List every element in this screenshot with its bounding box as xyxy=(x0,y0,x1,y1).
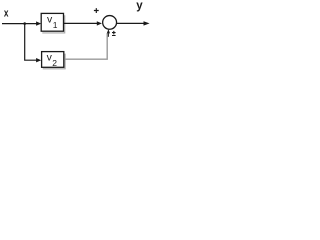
plus-minus sign xyxy=(112,31,116,36)
svg-text:2: 2 xyxy=(52,58,57,68)
block V1 xyxy=(41,13,63,31)
arrowhead into summing junction (bottom) xyxy=(107,29,110,33)
arrowhead into V2 xyxy=(36,58,41,62)
arrowhead at output y xyxy=(144,21,150,25)
block V1 shadow xyxy=(42,15,64,33)
plus sign (top input) xyxy=(94,8,99,13)
svg-text:y: y xyxy=(136,0,143,12)
summing junction circle xyxy=(103,16,117,30)
wire: V1 to summing junction xyxy=(64,22,98,24)
svg-text:1: 1 xyxy=(53,20,58,30)
arrowhead into summing junction (left) xyxy=(97,21,102,25)
svg-text:x: x xyxy=(4,8,9,20)
block V2 xyxy=(42,52,64,68)
wire: input to V1 xyxy=(2,23,38,25)
wire: V2 to summing junction (gray) xyxy=(64,33,107,59)
junction dot xyxy=(23,22,26,25)
wire: junction down and to V2 xyxy=(25,24,38,61)
wire: summing junction to output xyxy=(117,22,145,24)
block V2 shadow xyxy=(43,54,65,69)
arrowhead into V1 xyxy=(36,21,41,25)
